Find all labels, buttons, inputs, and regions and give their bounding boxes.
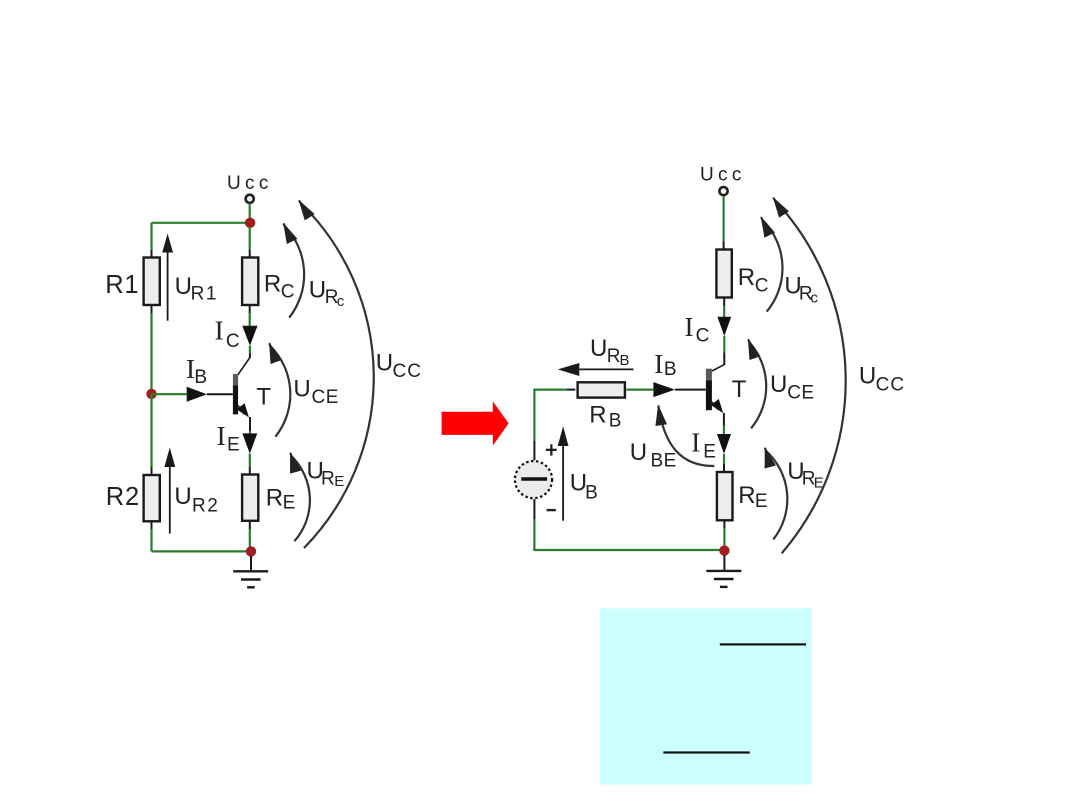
svg-text:B: B <box>620 352 630 369</box>
LEFT CIRCUIT <box>105 173 422 587</box>
resistor RE right <box>717 472 768 520</box>
node Ucc label right <box>700 165 746 186</box>
svg-text:R: R <box>589 402 606 429</box>
wire RB left to corner and down <box>533 389 575 461</box>
resistor R2 <box>106 475 160 521</box>
svg-text:c: c <box>337 293 345 310</box>
transistor T left <box>233 358 272 418</box>
svg-text:U: U <box>590 335 607 362</box>
emitter wire + current arrow IE left <box>217 417 258 475</box>
voltage arc U_Rc right <box>761 217 818 312</box>
voltage source U_B <box>515 444 557 511</box>
voltage arc U_CE left <box>269 343 339 436</box>
svg-text:T: T <box>732 376 747 403</box>
svg-text:CE: CE <box>787 383 814 404</box>
wire bottom rail right <box>533 549 724 551</box>
transistor T right <box>706 365 747 414</box>
voltage arc U_Rc left <box>284 224 345 318</box>
resistor Rc left <box>242 258 294 306</box>
svg-text:I: I <box>654 349 663 379</box>
current arrow Ic right <box>685 312 732 347</box>
svg-text:I: I <box>691 428 700 458</box>
wire left branch upper <box>150 223 152 258</box>
svg-text:Ucc: Ucc <box>227 173 273 194</box>
junction bottom right <box>719 545 729 555</box>
resistor Rc right <box>716 250 768 298</box>
svg-text:U: U <box>630 439 647 466</box>
wire top node to Rc <box>249 227 251 258</box>
svg-text:E: E <box>283 493 296 514</box>
svg-text:R: R <box>738 264 755 291</box>
resistor R1 <box>105 258 160 306</box>
svg-text:U: U <box>770 371 787 398</box>
svg-text:CE: CE <box>312 387 339 408</box>
ground left <box>233 556 268 587</box>
svg-text:c: c <box>810 290 818 307</box>
svg-text:BE: BE <box>651 451 677 472</box>
base wire + current arrow IB left <box>152 354 233 402</box>
svg-text:E: E <box>334 473 344 490</box>
emitter wire + current arrow IE right <box>691 413 731 472</box>
svg-text:I: I <box>685 312 694 342</box>
svg-text:U: U <box>174 483 191 510</box>
svg-text:B: B <box>194 367 207 388</box>
ground right <box>706 555 741 587</box>
junction top left <box>245 218 255 228</box>
svg-text:R1: R1 <box>191 284 218 305</box>
svg-text:C: C <box>755 276 769 297</box>
svg-text:B: B <box>609 411 622 432</box>
svg-text:R2: R2 <box>192 495 219 516</box>
svg-text:CC: CC <box>876 374 905 395</box>
current arrow Ic left <box>215 315 258 352</box>
svg-text:B: B <box>585 483 598 504</box>
wire Ic arrow to collector right <box>723 336 725 365</box>
wire mid junction to R2 <box>150 394 152 475</box>
terminal Ucc right <box>719 187 727 195</box>
svg-text:R: R <box>607 346 621 367</box>
voltage arc U_RE left <box>290 453 344 541</box>
arrow U_RB <box>558 335 634 376</box>
resistor RB <box>578 382 625 431</box>
wire terminal to Rc right <box>722 196 724 250</box>
wire Rc to Ic arrow right <box>723 298 725 318</box>
wire Ic arrow to collector <box>249 346 251 358</box>
wire R1 bottom to mid junction <box>151 305 153 394</box>
svg-text:C: C <box>226 331 240 352</box>
svg-text:T: T <box>256 384 271 411</box>
svg-text:C: C <box>281 281 295 302</box>
node Ucc label left <box>227 173 273 194</box>
arrow U_R2 <box>164 448 219 534</box>
svg-text:U: U <box>376 349 393 376</box>
cyan formula box <box>600 608 812 784</box>
svg-text:I: I <box>215 315 224 345</box>
wire terminal to top node <box>249 204 251 223</box>
svg-text:I: I <box>217 421 226 451</box>
wire RE to bottom junction <box>249 521 251 552</box>
wire bottom rail left <box>152 550 252 552</box>
voltage arc U_RE right <box>765 448 824 540</box>
svg-text:CC: CC <box>393 361 422 382</box>
svg-text:E: E <box>703 442 716 463</box>
svg-text:U: U <box>859 363 876 390</box>
voltage arc U_CC left <box>299 201 422 549</box>
wire top rail left <box>152 222 251 224</box>
svg-text:R: R <box>738 482 755 509</box>
svg-text:R: R <box>264 270 281 297</box>
voltage arc U_CC right <box>773 198 905 554</box>
fraction bar 1 <box>720 643 806 645</box>
wire R2 bottom to bottom rail <box>151 521 153 551</box>
svg-text:Ucc: Ucc <box>700 165 746 186</box>
wire source bottom to bottom rail <box>533 499 535 551</box>
voltage arc U_BE <box>630 406 715 472</box>
svg-text:U: U <box>293 376 310 403</box>
wire Rc to Ic arrow <box>249 305 251 327</box>
svg-text:R1: R1 <box>105 271 139 299</box>
svg-text:U: U <box>175 273 192 300</box>
fraction bar 2 <box>663 751 749 753</box>
RIGHT CIRCUIT <box>515 165 905 587</box>
red arrow <box>442 401 509 445</box>
svg-text:C: C <box>696 326 710 347</box>
svg-text:R: R <box>321 468 335 489</box>
svg-text:U: U <box>309 276 326 303</box>
svg-text:E: E <box>227 434 240 455</box>
wire RE to bottom junction right <box>723 520 725 550</box>
svg-text:R2: R2 <box>106 483 140 511</box>
svg-text:E: E <box>755 491 768 512</box>
arrow U_B <box>558 426 598 520</box>
junction bottom left <box>246 546 256 556</box>
current arrow IB right + base wire <box>626 349 706 397</box>
terminal Ucc left <box>246 195 254 203</box>
svg-text:R: R <box>266 485 283 512</box>
voltage arc U_CE right <box>748 339 814 428</box>
svg-text:B: B <box>664 359 677 380</box>
junction mid left <box>146 389 156 399</box>
resistor RE left <box>242 475 295 521</box>
arrow U_R1 <box>162 234 218 321</box>
